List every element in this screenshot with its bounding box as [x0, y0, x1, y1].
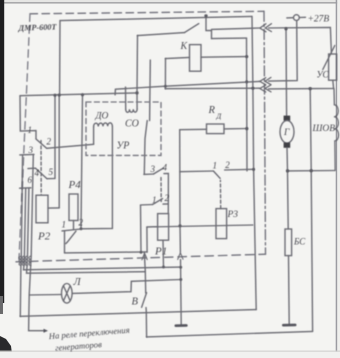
svg-text:3: 3 [150, 164, 156, 174]
wire: vertical x310 down right side [310, 89, 312, 332]
wire: ground line vertical x180 [179, 130, 182, 253]
connector arrows (+27V wire) [260, 24, 272, 32]
wire: P4 bottom lead [73, 221, 75, 230]
boundary arrow (P4 circuit) [142, 253, 147, 260]
barrier coils on bundle wires (boundary feed-through) [19, 256, 31, 265]
wire: K contact jog to right vertical [212, 37, 247, 40]
svg-text:1: 1 [213, 161, 218, 171]
svg-text:1: 1 [152, 195, 157, 205]
svg-text:1: 1 [62, 220, 67, 230]
wire: +27V main wire to US fuse [269, 27, 332, 54]
relay P1 coil [158, 214, 169, 241]
wire: P1 left lead [147, 226, 158, 228]
resistor BS body [285, 229, 292, 256]
lamp L cross [63, 286, 70, 301]
svg-text:Г: Г [283, 128, 290, 138]
wire: contact 2 to DO winding [47, 144, 94, 148]
wire: DO left leg [93, 127, 95, 145]
relay K coil [190, 45, 202, 72]
contact P1 1-2 : blade [153, 199, 163, 205]
connector chevrons at unit boundary [260, 24, 272, 92]
svg-text:1: 1 [28, 125, 33, 135]
svg-text:+27В: +27В [308, 15, 330, 25]
relay P4 coil [69, 194, 78, 221]
svg-text:УС: УС [317, 70, 330, 80]
unit dashed boundary : bottom edge [16, 254, 266, 262]
node +27V terminal [287, 17, 294, 19]
wire: UR blade feed from K lead line [149, 60, 152, 121]
ground (right, BS) [283, 324, 295, 327]
svg-text:Р1: Р1 [154, 246, 167, 258]
winding ShOV coil [334, 89, 335, 171]
wire: lamp right to ground line [72, 280, 181, 294]
winding DO of differential relay [94, 123, 113, 127]
contact UR 3-4 : right terminal to P1 top [164, 173, 169, 213]
svg-text:Р3: Р3 [227, 210, 239, 220]
svg-text:СО: СО [125, 119, 139, 130]
wire: +27V terminal down and left to connector [269, 21, 298, 82]
wire: equalizer wire to connector A [115, 81, 259, 94]
contact P4 blade [66, 231, 76, 244]
svg-text:УР: УР [117, 141, 130, 152]
wire: P1 left lead vertical [146, 227, 148, 252]
wire: K coil right lead [201, 56, 247, 59]
switch V blade [142, 293, 147, 308]
generator G brush top [284, 116, 291, 121]
wire: vertical x246 (K coil / R_d right / contact right) [246, 38, 249, 171]
contact P2 1-2 blade [36, 139, 47, 148]
contact UR blade [144, 121, 147, 174]
svg-text:R: R [208, 105, 216, 116]
svg-text:5: 5 [49, 167, 54, 177]
contact UR 1-2 : blade (hanging open) [213, 171, 220, 178]
fuse US diagonal [323, 46, 335, 70]
contact P1 1-2 : right stub [163, 203, 168, 205]
wire: common line to boundary arrow [65, 252, 148, 253]
contact P1 1-2 : left terminal [141, 204, 153, 207]
wire: inner box left edge x60 [59, 21, 61, 95]
wire: left bus y95 [20, 93, 137, 96]
generator G body [280, 121, 294, 143]
wire: bus feed down to P4 contact [81, 95, 83, 229]
relay UR dashed box [86, 102, 161, 155]
wire: bundle wire 4 (to lamp and arrow note) [29, 155, 44, 331]
arrow to note [44, 329, 49, 333]
unit dashed boundary : left edge [19, 14, 30, 260]
contact UR 3-4 : blade [154, 168, 164, 174]
wire: US bottom to left connector wire B [269, 80, 334, 89]
mechanical link P3 (dashed) [219, 180, 221, 208]
wire: K coil left lead [166, 57, 190, 58]
winding SO of differential relay [126, 109, 137, 112]
contact UR 1-2 : left terminal [180, 170, 214, 173]
svg-text:2: 2 [165, 193, 170, 203]
contactor K contact: blade [185, 24, 199, 33]
contact P2 terminal 3 stub [20, 153, 34, 156]
svg-text:2: 2 [47, 137, 52, 147]
contactor K contact: fixed left wire [138, 33, 185, 36]
wire: contact 5 to vertical [47, 178, 55, 180]
svg-text:2: 2 [225, 160, 230, 170]
svg-text:6: 6 [28, 175, 33, 185]
ground (left) [176, 324, 187, 327]
svg-text:4: 4 [163, 163, 168, 173]
wire: K contact to connector (+27V) [212, 28, 260, 29]
wire: ground line below boundary [180, 260, 183, 325]
wire: generator top lead [285, 29, 288, 116]
wire: vertical x55 bus to contact5 wire [54, 95, 56, 178]
wire: P4 contact down to common line [64, 231, 66, 253]
relay P2 coil [36, 195, 48, 223]
wire: DO right leg down to P4 contact [81, 126, 112, 229]
wire: lamp left lead from bundle wire 4 [29, 294, 61, 297]
lamp L body [62, 284, 73, 304]
connector arrows (wire A) [260, 77, 271, 84]
contact P2 terminal 4 stub [28, 167, 36, 169]
wire: generator bottom lead [286, 148, 289, 171]
wire: step from bus down to contact 1 [20, 96, 36, 139]
wire: bus y226 from P1 to right vertical [147, 225, 253, 227]
wire: vertical x59 bus to P2 right lead [58, 95, 60, 208]
wire: generator to BS resistor [287, 171, 290, 229]
boundary arrow (ground line) [178, 253, 183, 260]
svg-text:3: 3 [28, 145, 34, 155]
fuse US body [329, 54, 337, 80]
wire: P1 bottom lead [162, 240, 165, 267]
svg-text:ДМР-600Т: ДМР-600Т [17, 22, 57, 32]
wire: top +27V bus inside unit [60, 16, 252, 20]
svg-text:БС: БС [293, 237, 306, 247]
wire: BS to ground [288, 256, 291, 325]
wire: across boundary to switch V [144, 252, 145, 293]
contactor K contact: feed from bus [206, 16, 212, 39]
svg-text:В: В [132, 297, 139, 308]
wire: bottom return line [147, 331, 313, 337]
mechanical link P2 (dashed) [40, 141, 42, 195]
svg-text:Л: Л [73, 277, 82, 288]
connector arrows (wire B) [260, 85, 271, 92]
svg-text:2: 2 [79, 218, 84, 228]
svg-text:4: 4 [35, 168, 40, 178]
mechanical link 3-4 to 1-2 (dashed) [160, 178, 162, 202]
wire: SO left leg up [125, 87, 127, 109]
wire: SO right leg up to K contact [136, 36, 139, 110]
contact P2 terminal 6 stub [20, 187, 31, 189]
resistor R_d body [207, 124, 225, 134]
generator G brush bottom [284, 143, 291, 148]
contact P2 4-5 blade [36, 168, 48, 179]
svg-text:ДО: ДО [95, 112, 109, 122]
wire: long return line to left wire bundle [20, 310, 256, 317]
wire: connector wire B y88 [165, 87, 259, 90]
wire: R_d left lead [180, 128, 207, 130]
wire: bundle wire 3 (to switch V) [27, 188, 146, 273]
wire: vertical x165 up to K coil lead [164, 59, 166, 89]
wire: generator bottom junction line y171 [288, 170, 336, 172]
contact UR 1-2 : right terminal [225, 168, 254, 171]
ДМР-600Т unit dashed boundary : top edge [30, 11, 264, 14]
contact P4 fixed line [62, 229, 81, 231]
wire: bundle wire 2 (to ground line) [24, 188, 181, 270]
unit dashed boundary : right edge (dash-dot) [264, 11, 266, 254]
wire: contact 1-2 left terminal down [140, 205, 143, 252]
svg-text:Р2: Р2 [37, 231, 51, 243]
wire: bundle wire 1 (return line) [20, 155, 22, 316]
wire: P2 right lead [48, 207, 59, 209]
wire: R_d right lead [224, 128, 247, 130]
relay P3 coil [216, 209, 227, 239]
wire: switch V bottom to bottom line [145, 308, 148, 337]
contact UR 3-4 : left terminal [144, 173, 154, 175]
svg-text:ШОВ: ШОВ [312, 124, 336, 134]
wire: right-side long vertical from top bus down to bottom-left return line [252, 16, 256, 309]
svg-text:Р4: Р4 [68, 179, 82, 191]
